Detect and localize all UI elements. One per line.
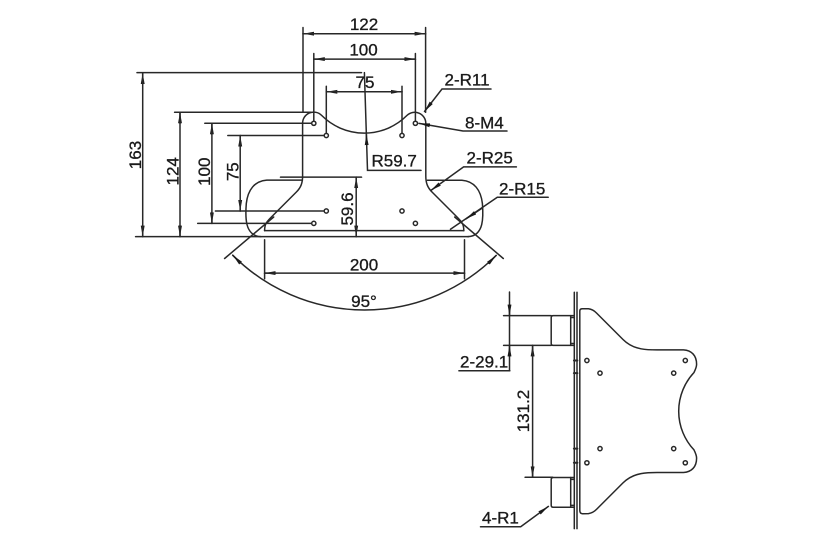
svg-text:8-M4: 8-M4 [465, 114, 504, 133]
hole M4 top-left inner [324, 133, 328, 137]
svg-text:2-R11: 2-R11 [445, 71, 490, 90]
dim 75v extension lines [228, 135, 324, 137]
side view hole bottom-right inner [672, 447, 676, 451]
dim 200 extension lines [264, 240, 266, 279]
dim 122 line [303, 33, 314, 35]
side view: plate edge strip [573, 292, 575, 528]
svg-text:131.2: 131.2 [514, 390, 533, 433]
svg-text:2-29.1: 2-29.1 [460, 353, 508, 372]
dim 2-29.1 line [509, 292, 511, 371]
svg-text:100: 100 [195, 158, 214, 186]
95 deg arc arrow left [233, 255, 241, 263]
side view hole top-right outer [683, 358, 687, 362]
hole M4 bottom-left outer [312, 221, 316, 225]
dim 75 top line [326, 91, 337, 93]
dim 100 extension lines [313, 54, 315, 122]
side view hole bottom-right outer [683, 461, 687, 465]
svg-text:4-R1: 4-R1 [482, 509, 519, 528]
dim 131.2 bottom extension line [525, 476, 553, 478]
dim 200 line [265, 272, 276, 274]
svg-text:122: 122 [350, 15, 378, 34]
leader 8-M4 [419, 123, 507, 131]
side view: bottom tab [551, 478, 574, 508]
hole M4 bottom-left inner [324, 209, 328, 213]
dim 75 extension lines [325, 86, 327, 133]
inner bottom bend line [265, 230, 464, 232]
side view hole top-right inner [672, 371, 676, 375]
svg-text:75: 75 [224, 162, 243, 181]
plate top outline: left ear R11, dip R59.7, right ear R11 [303, 112, 426, 133]
R59.7 arrow [365, 134, 367, 145]
svg-text:200: 200 [350, 256, 378, 275]
side view hole top-left inner [598, 371, 602, 375]
svg-text:2-R25: 2-R25 [467, 149, 513, 168]
svg-text:100: 100 [349, 41, 377, 60]
dim 75 vertical line [239, 136, 241, 147]
hole M4 bottom-right inner [400, 209, 404, 213]
95 deg left ray [225, 217, 274, 259]
bottom outer edge with left extension line for 163/124 [136, 236, 469, 238]
side view hole top-left outer [585, 358, 589, 362]
dim 100 vertical line [211, 123, 213, 134]
svg-text:75: 75 [356, 73, 375, 92]
dim 59.6 line [355, 177, 357, 188]
left wing lower top edge (bend line) [246, 180, 303, 237]
hole M4 top-left outer [312, 121, 316, 125]
side view: butterfly VESA plate outline [580, 309, 697, 514]
hole M4 top-right inner [400, 133, 404, 137]
plate right stem edge + bend swoosh [426, 123, 464, 230]
side view: strip hole ticks [574, 360, 578, 362]
side view hole bottom-left outer [585, 461, 589, 465]
svg-text:124: 124 [163, 157, 182, 185]
svg-text:R59.7: R59.7 [372, 152, 417, 171]
svg-text:95°: 95° [351, 292, 377, 311]
95 deg right ray [455, 217, 504, 259]
leader 4-R1 [481, 506, 549, 526]
right wing: top edge, R25 corner, outer edge, R15 corner [427, 180, 483, 236]
side view hole bottom-left inner [598, 447, 602, 451]
svg-text:59.6: 59.6 [338, 192, 357, 225]
leader 2-R15 [451, 197, 549, 229]
dim 131.2 line [532, 345, 534, 356]
2-29.1 underline [459, 370, 510, 372]
dim 124 line [179, 112, 181, 123]
dim 122 extension lines [302, 28, 304, 113]
svg-text:163: 163 [126, 141, 145, 169]
svg-text:2-R15: 2-R15 [499, 180, 545, 199]
95 deg arc arrow right [488, 256, 496, 264]
dim 163 line [142, 73, 144, 84]
dim 100v extension lines [205, 122, 311, 124]
leader 2-R25 [431, 167, 517, 191]
side view: top tab [551, 316, 574, 346]
dim 124 extension line at ear top [175, 111, 311, 113]
leader 2-R11 [425, 89, 492, 112]
dim 2-29.1 extension lines [504, 315, 552, 317]
dim 163 top extension line [137, 72, 362, 74]
R59.7 radius line with underline [364, 73, 421, 171]
left wing: top edge (with 59.6 extension), R25 corner, outer edge, R15 corner [281, 176, 362, 178]
hole M4 bottom-right outer [413, 221, 417, 225]
hole M4 top-right outer [413, 121, 417, 125]
95 deg dimension arc [233, 255, 497, 310]
dim 100 top line [314, 58, 325, 60]
plate left stem edge + bend swoosh down to inner bottom line [265, 123, 303, 230]
